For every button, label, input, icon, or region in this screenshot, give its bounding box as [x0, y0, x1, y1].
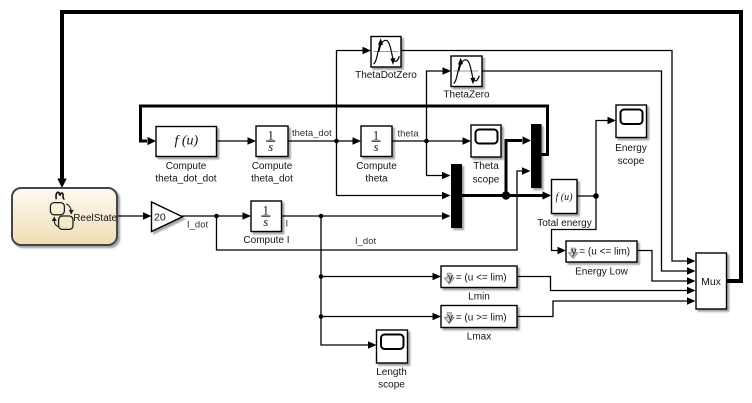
wire: Gain output (I_dot) to Compute I [182, 212, 251, 220]
wire: Mux output outer feedback loop (thick) to ReelState chart input [57, 12, 741, 281]
junction: node at Total energy output [593, 193, 599, 199]
svg-text:I: I [286, 219, 289, 230]
integrator Compute theta_dot (1/s) [256, 126, 288, 157]
svg-text:ThetaZero: ThetaZero [443, 90, 490, 101]
junction: node theta_dot [334, 139, 339, 144]
svg-text:Energy: Energy [615, 143, 647, 154]
svg-text:y = (u <= lim): y = (u <= lim) [572, 247, 631, 258]
svg-text:s: s [374, 140, 379, 154]
svg-text:Lmin: Lmin [468, 292, 490, 303]
svg-text:Compute: Compute [356, 161, 397, 172]
svg-text:y = (u <= lim): y = (u <= lim) [448, 273, 507, 284]
svg-text:theta: theta [398, 129, 420, 140]
svg-text:Compute: Compute [166, 161, 207, 172]
hit-crossing block ThetaZero [451, 56, 482, 87]
scope block Theta scope [471, 125, 501, 157]
svg-text:s: s [268, 140, 273, 154]
wire: Lmax output to Mux input 5 [517, 297, 696, 316]
wire: Total energy output up to Energy scope [577, 117, 616, 196]
scope block Length scope [377, 330, 408, 363]
svg-text:Energy Low: Energy Low [575, 267, 629, 278]
chart ReelState (Stateflow chart) [12, 188, 118, 245]
wire: I branch to Lmax [321, 313, 441, 321]
svg-text:Mux: Mux [701, 276, 722, 288]
svg-text:Compute: Compute [252, 161, 293, 172]
fcn block Total energy f(u) [552, 180, 578, 214]
wire: bus branch up from junction to Mux2 input 1 (thick) [506, 136, 531, 197]
svg-text:scope: scope [378, 380, 405, 391]
svg-text:scope: scope [618, 156, 645, 167]
svg-text:ReelState: ReelState [73, 213, 117, 224]
wire: theta branch down to Mux1 input 1 [427, 141, 451, 179]
svg-text:I_dot: I_dot [355, 236, 376, 247]
wire: theta branch up to ThetaZero [427, 67, 452, 141]
junction: bus node at Mux1 output [502, 191, 510, 199]
svg-text:f (u): f (u) [174, 134, 198, 149]
gain block (20) [152, 202, 183, 232]
wire: ThetaZero output to Mux input 2 [482, 71, 696, 275]
junction: node at I_dot after gain [214, 214, 219, 219]
wire: I_dot branch down and right to Mux2 input 2 [217, 167, 531, 250]
wire: Energy Low output to Mux input 3 [637, 251, 696, 285]
compare block Lmin [441, 266, 517, 288]
svg-text:theta_dot_dot: theta_dot_dot [155, 174, 216, 185]
wire: Compute theta_dot_dot output to Compute theta_dot [217, 137, 257, 145]
wire: Compute I output (I) to Mux1 input 3 [282, 212, 451, 220]
svg-text:ThetaDotZero: ThetaDotZero [355, 70, 417, 81]
junction: node I to Lmin [319, 274, 324, 279]
wire: Mux1 output bus to Total energy (thick) [462, 191, 551, 199]
integrator Compute theta (1/s) [361, 126, 392, 157]
wire: bus feedback from Mux2 output to Compute theta_dot_dot (thick) [141, 106, 548, 155]
mux block Mux [696, 253, 727, 309]
wire: ThetaDotZero output to Mux input 1 [401, 51, 696, 265]
wire: theta to Theta scope [392, 137, 471, 145]
wire: theta_dot to Compute theta [288, 137, 361, 145]
mux bar Mux2 (bus + I_dot) [531, 124, 542, 188]
svg-text:Length: Length [376, 367, 407, 378]
svg-text:scope: scope [473, 175, 500, 186]
svg-text:theta_dot: theta_dot [251, 174, 293, 185]
integrator Compute I (1/s) [251, 201, 282, 232]
svg-text:Theta: Theta [473, 161, 499, 172]
svg-text:s: s [263, 215, 268, 229]
wire: theta_dot branch up to ThetaDotZero [337, 47, 372, 141]
wire: Lmin output to Mux input 4 [517, 277, 696, 295]
svg-text:Total energy: Total energy [537, 218, 591, 229]
compare block Lmax [441, 306, 517, 328]
svg-text:theta_dot: theta_dot [292, 128, 332, 139]
svg-text:y = (u >= lim): y = (u >= lim) [448, 313, 507, 324]
svg-text:Lmax: Lmax [467, 332, 491, 343]
svg-text:I_dot: I_dot [187, 220, 208, 231]
hit-crossing block ThetaDotZero [371, 37, 401, 68]
svg-text:Compute I: Compute I [243, 235, 289, 246]
wire: Total energy output down to Energy Low [552, 196, 597, 254]
wire: I branch down to Length scope [321, 216, 377, 349]
fcn block Compute theta_dot_dot f(u) [156, 127, 217, 157]
wire: theta_dot branch down to Mux1 input 2 [337, 141, 451, 199]
svg-text:f (u): f (u) [556, 192, 574, 203]
compare block Energy Low [566, 241, 637, 262]
scope block Energy scope [616, 105, 647, 138]
wire: ReelState chart output to Gain [118, 212, 152, 220]
wire: I branch to Lmin [321, 273, 441, 281]
junction: node I to Lmax [319, 314, 324, 319]
svg-text:theta: theta [365, 174, 388, 185]
mux bar Mux1 (bus of theta, theta_dot, I) [451, 164, 462, 228]
junction: node I after Compute I [319, 214, 324, 219]
junction: node theta [424, 139, 429, 144]
svg-text:20: 20 [154, 211, 166, 223]
